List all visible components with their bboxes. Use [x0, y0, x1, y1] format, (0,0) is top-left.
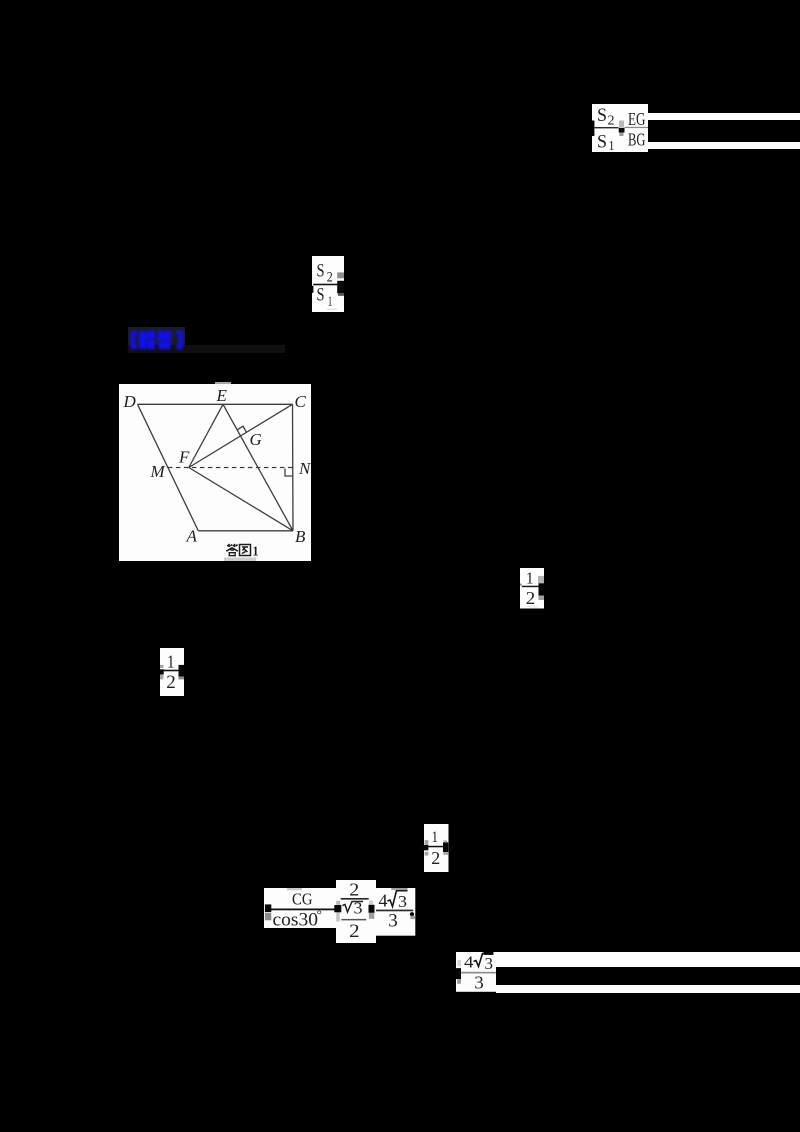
fraction 1/2 (third) [422, 824, 449, 872]
fraction bar [313, 283, 337, 285]
formula S2/S1 = EG/BG (top right white box) [592, 104, 648, 152]
dashed line MN [168, 467, 293, 469]
line EF [189, 404, 223, 467]
svg-text:B: B [295, 527, 306, 546]
fraction bar EG/BG [625, 127, 649, 128]
fraction 1/2 (second) [160, 648, 185, 696]
bracket 【 [130, 331, 137, 350]
glyph 答 [226, 544, 238, 551]
svg-text:3: 3 [354, 898, 363, 917]
svg-text:1: 1 [432, 829, 439, 846]
svg-text:EG: EG [628, 109, 646, 129]
svg-text:CG: CG [292, 889, 313, 908]
caption 答图1 [226, 544, 258, 560]
line FB [189, 468, 293, 531]
svg-text:°: ° [316, 906, 321, 921]
svg-text:M: M [150, 462, 166, 481]
gray strip under caption [224, 558, 256, 562]
svg-text:2: 2 [608, 113, 615, 128]
line DC [138, 403, 293, 405]
white strip right of top formula (lower) [648, 142, 800, 149]
box 2/(sqrt3/2) [334, 880, 376, 944]
svg-text:S: S [597, 132, 607, 153]
svg-text:1: 1 [609, 139, 615, 152]
line FC [189, 404, 293, 467]
right angle at G [237, 426, 246, 432]
svg-text:1: 1 [253, 545, 259, 560]
sqrt3 [343, 901, 364, 912]
svg-text:3: 3 [484, 954, 492, 973]
svg-text:S: S [597, 105, 607, 126]
svg-text:1: 1 [526, 569, 534, 588]
box CG/cos30° [264, 888, 337, 928]
svg-text:2: 2 [327, 269, 333, 285]
svg-text:S: S [317, 260, 325, 281]
fraction bar S2/S1 [595, 127, 619, 128]
svg-text:F: F [178, 448, 190, 467]
svg-text:4: 4 [464, 953, 473, 972]
svg-text:S: S [317, 284, 325, 305]
bracket 】 [176, 331, 183, 350]
svg-text:2: 2 [431, 848, 440, 868]
geometry figure 答图1 (white box) [119, 384, 311, 561]
svg-text:1: 1 [167, 651, 175, 671]
fraction bar CG/cos30 [270, 908, 336, 910]
svg-text:1: 1 [328, 294, 333, 310]
svg-text:N: N [298, 459, 311, 478]
svg-text:BG: BG [628, 130, 646, 150]
svg-text:2: 2 [166, 672, 176, 693]
svg-text:G: G [250, 430, 262, 449]
svg-text:cos30: cos30 [272, 909, 318, 928]
svg-text:3: 3 [474, 973, 484, 992]
svg-text:A: A [186, 527, 198, 546]
svg-text:C: C [295, 392, 307, 411]
line EB [223, 404, 293, 531]
svg-text:2: 2 [526, 588, 536, 608]
equals sign artifact [619, 121, 624, 128]
white strip right of last fraction (lower) [496, 985, 800, 993]
line DA [138, 404, 199, 531]
glyph 图 [240, 545, 251, 556]
svg-text:2: 2 [349, 920, 360, 941]
line CB [292, 404, 295, 531]
svg-text:4: 4 [379, 891, 388, 911]
white strip right of top formula (upper) [648, 113, 800, 120]
line AB [198, 530, 293, 532]
fraction 1/2 (first) [520, 568, 544, 609]
white strip right of last fraction (upper) [496, 952, 800, 967]
period dot [410, 912, 414, 916]
glyph 答 [157, 331, 164, 336]
svg-text:2: 2 [349, 880, 359, 900]
svg-text:3: 3 [388, 911, 397, 931]
fraction 4sqrt3/3 (last) [456, 952, 496, 992]
svg-text:E: E [216, 386, 228, 405]
blue label 【解答】 on dark strip [128, 327, 185, 353]
gray notch above figure box [215, 382, 231, 385]
svg-text:D: D [123, 392, 137, 411]
glyph 解 [139, 331, 146, 349]
svg-text:3: 3 [398, 892, 407, 911]
formula S2/S1 (second white box) [312, 256, 344, 313]
box 4sqrt3/3 with period [376, 888, 416, 936]
right angle at N [285, 469, 293, 477]
